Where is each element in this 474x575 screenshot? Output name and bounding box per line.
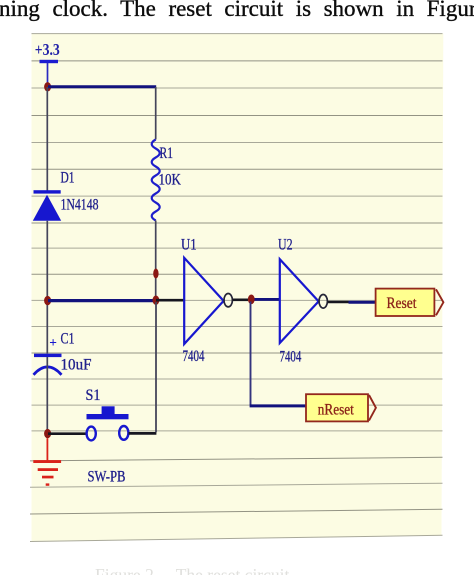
wire R1 bottom vertical: [155, 221, 157, 300]
svg-text:+3.3: +3.3: [35, 40, 60, 59]
node A junction: [44, 82, 51, 91]
capacitor C1 top plate: [34, 354, 62, 357]
svg-text:10K: 10K: [159, 172, 182, 189]
wire left rail middle: [46, 221, 48, 354]
wire R1 top vertical: [155, 87, 157, 140]
svg-text:S1: S1: [86, 387, 101, 404]
svg-text:10uF: 10uF: [61, 357, 92, 374]
port Reset flag: [376, 289, 444, 316]
ground dot: [46, 483, 50, 485]
switch S1 button bump: [102, 406, 115, 414]
U2 output bubble: [319, 295, 327, 309]
op-amp U2 inverter triangle: [280, 259, 319, 343]
ground bar 3: [42, 476, 54, 479]
port nReset flag: [306, 394, 376, 421]
diode D1 cathode bar: [34, 190, 61, 193]
svg-text:R1: R1: [160, 145, 174, 162]
svg-text:SW-PB: SW-PB: [88, 469, 126, 486]
node C junction: [44, 429, 51, 438]
svg-text:Reset: Reset: [387, 295, 417, 312]
wire switch right: [129, 432, 157, 435]
wire nReset horizontal: [250, 404, 306, 407]
wire nReset vertical: [250, 302, 252, 405]
wire node B to U2 input: [255, 298, 281, 301]
ground bar 2: [38, 468, 58, 471]
svg-text:1N4148: 1N4148: [61, 197, 99, 214]
wire main bus left: [48, 299, 156, 302]
wire to Reset port: [349, 301, 376, 304]
switch S1 actuator bar: [87, 414, 129, 419]
wire to ground: [46, 438, 48, 460]
svg-text:nReset: nReset: [318, 402, 354, 419]
schematic sheet background: [32, 34, 444, 542]
power bar symbol: [40, 60, 59, 63]
capacitor C1 curved plate: [34, 367, 62, 375]
wire U1 output: [233, 298, 249, 301]
resistor R1: [152, 140, 160, 221]
wire left rail lower: [46, 357, 48, 431]
svg-text:7404: 7404: [183, 348, 205, 365]
wire into U1 input: [156, 299, 184, 302]
switch S1 left terminal: [87, 427, 96, 441]
node B junction: [248, 295, 255, 305]
wire left rail upper: [46, 87, 48, 191]
op-amp U1 inverter triangle: [184, 258, 223, 344]
svg-text:ning clock. The reset circuit: ning clock. The reset circuit is shown i…: [0, 0, 474, 21]
svg-text:Figure 2. The reset circuit: Figure 2. The reset circuit: [95, 565, 290, 575]
wire S1 branch vertical: [155, 302, 157, 432]
svg-text:D1: D1: [61, 170, 75, 187]
wire power to node A: [47, 63, 49, 86]
svg-text:C1: C1: [61, 331, 75, 348]
wire U2 output black: [328, 301, 349, 304]
U1 output bubble: [224, 294, 232, 307]
ground bar 1: [33, 460, 61, 463]
svg-text:7404: 7404: [280, 349, 302, 366]
diode D1 triangle: [33, 195, 61, 221]
node main-left junction: [44, 296, 51, 305]
switch S1 right terminal: [119, 426, 128, 440]
node R1-bottom junction: [153, 296, 160, 305]
junction dot on R1 branch: [153, 269, 158, 279]
wire to switch left: [48, 432, 86, 435]
svg-text:U1: U1: [181, 237, 197, 254]
svg-text:+: +: [49, 335, 57, 350]
wire top horizontal to R1: [48, 85, 156, 88]
svg-text:U2: U2: [278, 237, 293, 254]
